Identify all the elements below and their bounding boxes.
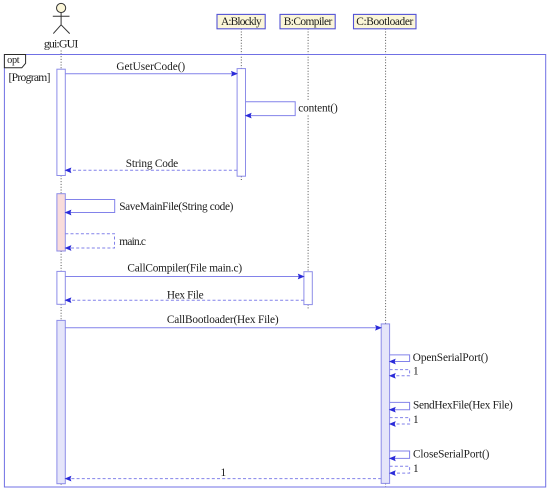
activation bar gui #1 [57, 69, 65, 175]
return message Hex File [70, 299, 304, 301]
svg-text:B:Compiler: B:Compiler [284, 16, 333, 28]
lifeline A:Blockly [240, 29, 242, 181]
svg-text:opt: opt [7, 55, 20, 66]
self message SendHexFile(Hex File) [390, 402, 410, 409]
svg-text:1: 1 [413, 366, 419, 378]
message CallBootloader(Hex File) [65, 327, 376, 329]
self message SaveMainFile(String code) [65, 200, 114, 213]
lifeline gui [60, 51, 62, 488]
svg-text:1: 1 [413, 463, 419, 475]
svg-text:A:Blockly: A:Blockly [221, 16, 262, 28]
svg-text:content(): content() [298, 102, 338, 114]
svg-text:Hex File: Hex File [167, 290, 204, 302]
activation bar A:Blockly [237, 69, 245, 177]
return message String Code [70, 169, 237, 171]
activation bar B:Compiler [304, 272, 312, 305]
activation bar gui #2 [57, 271, 65, 304]
svg-text:OpenSerialPort(): OpenSerialPort() [413, 352, 489, 364]
final return 1 [70, 478, 381, 480]
object box C:Bootloader [354, 14, 417, 28]
self message CloseSerialPort() [390, 451, 410, 458]
svg-text:[Program]: [Program] [9, 71, 51, 84]
activation bar gui SaveMainFile (pink) [57, 194, 65, 251]
object box A:Blockly [217, 14, 265, 28]
svg-text:SendHexFile(Hex File): SendHexFile(Hex File) [413, 400, 513, 412]
self message OpenSerialPort() [390, 355, 410, 362]
lifeline C:Bootloader [385, 29, 387, 487]
self return 1 (c) [390, 466, 410, 473]
svg-text:CallCompiler(File main.c): CallCompiler(File main.c) [127, 263, 242, 275]
svg-text:1: 1 [413, 414, 419, 426]
self return main.c [65, 234, 114, 248]
actor gui:GUI [53, 3, 70, 33]
svg-text:SaveMainFile(String code): SaveMainFile(String code) [119, 201, 233, 213]
svg-text:main.c: main.c [119, 236, 146, 248]
self message content() [246, 102, 296, 116]
svg-text:C:Bootloader: C:Bootloader [356, 16, 413, 28]
frame label pentagon opt [4, 55, 25, 68]
self return 1 (b) [390, 418, 410, 424]
message CallCompiler(File main.c) [65, 276, 299, 278]
activation bar gui #3 (lavender) [57, 320, 65, 483]
activation bar C:Bootloader (lavender) [381, 324, 389, 484]
svg-text:CloseSerialPort(): CloseSerialPort() [413, 448, 490, 460]
svg-text:CallBootloader(Hex File): CallBootloader(Hex File) [167, 314, 279, 326]
message GetUserCode() [65, 73, 232, 75]
svg-text:GetUserCode(): GetUserCode() [116, 61, 185, 73]
object box B:Compiler [280, 14, 335, 28]
svg-text:1: 1 [220, 467, 226, 479]
lifeline B:Compiler [307, 29, 309, 310]
svg-text:String Code: String Code [126, 158, 178, 170]
svg-text:gui:GUI: gui:GUI [44, 36, 79, 50]
self return 1 (a) [390, 370, 410, 376]
